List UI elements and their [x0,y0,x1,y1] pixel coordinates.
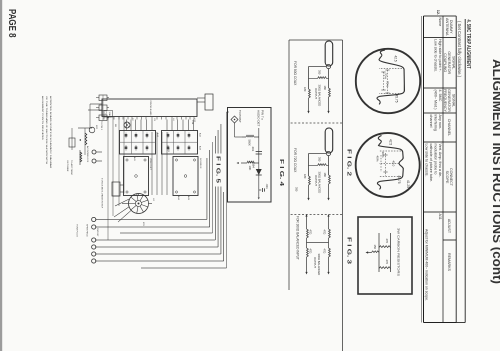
svg-text:GENERATOR: GENERATOR [447,89,451,112]
svg-text:CONNECT: CONNECT [449,168,453,187]
svg-text:SIGNAL: SIGNAL [451,94,455,107]
svg-text:4. 5MC TRAP ALIGNMENT: 4. 5MC TRAP ALIGNMENT [465,20,471,69]
svg-text:4. 5MC: 4. 5MC [438,90,442,102]
svg-text:cathode of picture tube.: cathode of picture tube. [429,144,433,183]
svg-text:45.0: 45.0 [392,161,396,167]
svg-text:channel: channel [429,115,433,128]
svg-text:PWR INT: PWR INT [96,228,98,237]
svg-text:None: None [438,18,442,27]
svg-text:GENERATOR: GENERATOR [447,51,451,74]
svg-text:YOKE PLUG: YOKE PLUG [76,224,78,237]
svg-text:FREQUENCY: FREQUENCY [443,89,447,112]
svg-text:SIGNAL: SIGNAL [451,56,455,69]
svg-text:F I G. 2: F I G. 2 [346,149,352,176]
svg-text:SCOPE: SCOPE [445,171,449,184]
svg-text:42.5: 42.5 [394,56,398,62]
svg-text:PAGE 8: PAGE 8 [6,9,17,38]
svg-text:F I G. 5: F I G. 5 [215,156,221,183]
svg-text:75%: 75% [386,81,390,87]
svg-text:PIN 7 o: PIN 7 o [261,110,265,120]
svg-text:REMARKS: REMARKS [447,253,451,272]
svg-text:F I G. 4: F I G. 4 [278,159,284,187]
svg-text:45.75: 45.75 [395,95,399,103]
svg-text:FOR 300Ω BALANCED INPUT: FOR 300Ω BALANCED INPUT [296,216,300,260]
svg-text:( Set Contrast fully clockwise: ( Set Contrast fully clockwise.) [457,21,462,78]
svg-text:ANTENNA: ANTENNA [445,18,449,36]
svg-text:SOUND IF: SOUND IF [199,158,201,169]
svg-text:3W CARBON RESISTORS: 3W CARBON RESISTORS [397,228,401,276]
svg-text:Any non-: Any non- [438,115,442,131]
svg-text:modulator probe to: modulator probe to [433,144,437,175]
svg-text:42.5: 42.5 [389,139,393,145]
svg-text:FOR 50Ω COAX: FOR 50Ω COAX [293,61,297,86]
svg-text:A11: A11 [438,214,442,220]
svg-text:Vert. Amp. thru a de-: Vert. Amp. thru a de- [438,144,442,179]
svg-text:12.: 12. [436,10,441,16]
svg-text:CHANNEL: CHANNEL [447,119,451,136]
svg-text:F I G. 3: F I G. 3 [346,237,352,264]
svg-text:ALIGNMENT INSTRUCTIONS (cont: ALIGNMENT INSTRUCTIONS (cont) [490,59,500,284]
svg-text:Low side to chassis.: Low side to chassis. [433,39,437,72]
svg-text:interfering: interfering [433,115,437,131]
svg-text:41.25: 41.25 [406,180,410,188]
svg-text:(400~ Mod.): (400~ Mod.) [433,90,437,110]
svg-text:40%: 40% [381,152,385,158]
svg-text:High side to point +.: High side to point +. [438,39,442,72]
svg-text:45.75: 45.75 [397,176,401,184]
svg-text:Low side to chassis.: Low side to chassis. [424,144,428,177]
svg-text:VIDEO DET: VIDEO DET [149,158,151,170]
svg-text:FOR 72Ω COAX: FOR 72Ω COAX [293,148,297,173]
svg-text:TO PIN 1: TO PIN 1 [100,121,102,131]
svg-text:AUDIO DET: AUDIO DET [257,110,261,127]
svg-text:DUMMY: DUMMY [449,20,453,34]
svg-text:COUPLING: COUPLING [443,53,447,72]
svg-text:ADJUST: ADJUST [447,219,451,234]
svg-text:40%: 40% [376,156,380,162]
svg-text:ON TUNER: ON TUNER [66,160,68,172]
svg-text:70%: 70% [384,73,388,79]
svg-text:Adjust for MINIMUM 400~ indica: Adjust for MINIMUM 400~ indication on sc… [425,229,429,301]
svg-text:SPKR FIELD: SPKR FIELD [86,224,88,237]
